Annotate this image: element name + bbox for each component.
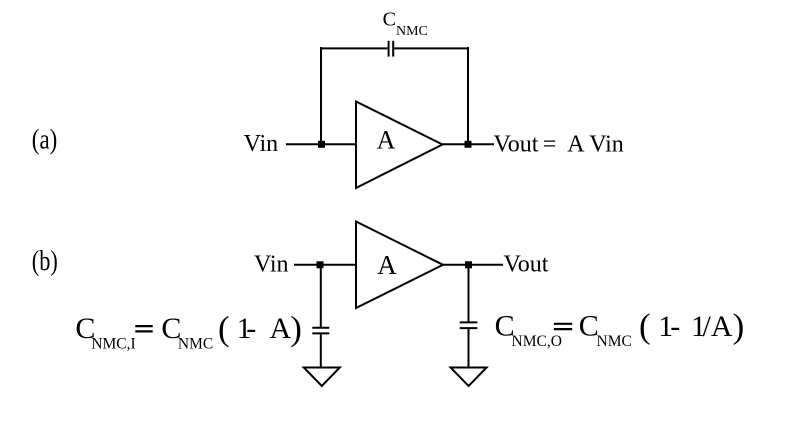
svg-text:(: ( (218, 309, 230, 348)
svg-text:A: A (377, 125, 396, 154)
svg-text:(b): (b) (32, 246, 58, 277)
svg-text:Vin: Vin (244, 131, 279, 157)
svg-text:NMC: NMC (597, 333, 632, 350)
svg-text:A: A (567, 132, 585, 158)
svg-text:Vin: Vin (589, 132, 624, 158)
svg-text:NMC: NMC (178, 336, 213, 353)
svg-text:Vout: Vout (494, 132, 539, 158)
svg-text:): ) (733, 306, 745, 345)
svg-text:NMC,O: NMC,O (512, 333, 562, 350)
svg-text:NMC,I: NMC,I (91, 336, 135, 353)
svg-text:(a): (a) (32, 125, 58, 156)
svg-text:A: A (270, 312, 292, 345)
svg-text:NMC: NMC (396, 24, 428, 39)
svg-text:C: C (383, 9, 396, 31)
svg-text:=: = (543, 132, 557, 158)
svg-text:Vin: Vin (254, 252, 289, 278)
svg-text:(: ( (639, 306, 651, 345)
svg-text:Vout: Vout (504, 252, 549, 278)
svg-text:): ) (290, 309, 302, 348)
svg-text:-: - (670, 310, 680, 343)
svg-text:-: - (246, 312, 256, 345)
svg-text:A: A (377, 250, 397, 280)
svg-text:/A: /A (703, 310, 733, 343)
